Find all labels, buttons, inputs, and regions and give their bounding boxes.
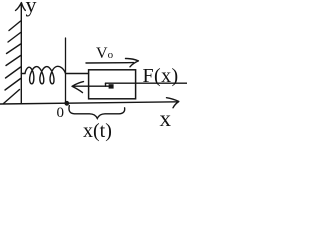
- spring: [21, 66, 65, 83]
- wall hatch 4: [6, 56, 21, 66]
- label y: [26, 0, 37, 16]
- attachment square: [109, 84, 114, 88]
- wall hatch 1: [9, 21, 21, 31]
- y-axis arrowhead: [16, 3, 26, 11]
- label F(x): [143, 66, 179, 86]
- wall hatch 6: [5, 79, 21, 91]
- force line to F(x): [106, 82, 188, 84]
- wall hatch 5: [6, 67, 21, 78]
- crank step: [105, 83, 107, 86]
- label Vo: [96, 46, 113, 62]
- wall hatch 3: [7, 44, 21, 54]
- wall hatch 2: [8, 33, 21, 43]
- label x(t): [83, 121, 112, 141]
- Vo arrow shaft: [86, 62, 134, 64]
- origin dot: [64, 101, 69, 106]
- underbrace x(t): [69, 106, 125, 119]
- label x axis: [160, 107, 172, 130]
- Vo arrowhead: [126, 58, 139, 66]
- wall (y-axis line): [20, 4, 22, 104]
- left arrow shaft: [74, 85, 109, 87]
- label 0: [57, 106, 65, 121]
- spring-to-mass link: [66, 73, 89, 75]
- x-axis arrowhead: [167, 98, 179, 108]
- origin reference line: [65, 38, 67, 103]
- wall hatch 7: [4, 90, 20, 104]
- left arrowhead: [72, 82, 84, 93]
- x-axis: [0, 102, 178, 104]
- mass box M: [89, 70, 136, 99]
